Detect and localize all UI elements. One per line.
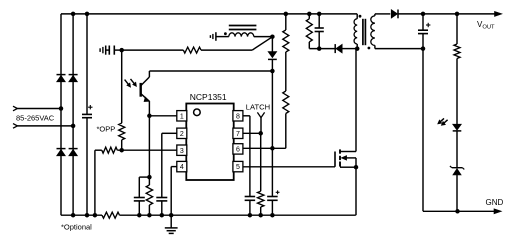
node bottom-B — [71, 213, 76, 218]
wire pin8 — [243, 115, 250, 117]
wire Q1 source to rail — [355, 167, 357, 215]
wire divider top lead — [456, 14, 458, 44]
diode D7 clamp — [334, 44, 336, 53]
led arrow 2 — [444, 120, 448, 123]
diode D4 — [69, 149, 78, 155]
node gnd junction — [455, 209, 460, 214]
wire emitter R to rail — [148, 205, 150, 215]
transistor opto base bar — [139, 83, 141, 97]
resistor sense Rs — [102, 212, 120, 218]
node bottom-C — [85, 213, 90, 218]
diode D2 — [69, 75, 78, 81]
svg-text:8: 8 — [236, 113, 240, 120]
wire D5 to vcc node — [271, 59, 273, 71]
svg-text:1: 1 — [180, 113, 184, 120]
opto light arrow 2 — [131, 79, 135, 84]
wire secondary top lead — [374, 14, 376, 16]
svg-text:6: 6 — [236, 147, 240, 154]
core transformer lines — [362, 19, 364, 45]
node vcc — [270, 69, 275, 74]
wire pin6 — [243, 147, 286, 149]
U1 pin 8 box — [233, 111, 243, 121]
U1 pin 2 box — [177, 128, 187, 138]
svg-text:5: 5 — [236, 164, 240, 171]
node CS-OPP junction — [119, 148, 124, 153]
capacitor pin1 filter — [134, 197, 145, 199]
node bottom emitter — [147, 213, 152, 218]
node bottom cap8 — [248, 213, 253, 218]
diode D5 vcc — [268, 52, 277, 58]
wire gnd rail — [458, 210, 499, 212]
wire output cap top lead — [422, 14, 424, 30]
node aux out — [270, 34, 275, 39]
node bridge A-AC1 — [59, 106, 64, 111]
wire latch vertical — [260, 118, 262, 134]
wire chain upper lead — [285, 14, 287, 30]
wire pin4 — [171, 166, 177, 168]
wire chain lower lead — [285, 114, 287, 149]
transistor Q1 gate bar — [334, 152, 336, 167]
capacitor pin8 — [245, 196, 256, 198]
resistor feedback — [454, 44, 460, 59]
Q1 body arrow — [341, 156, 346, 161]
wire divider to LED — [456, 59, 458, 125]
capacitor vcc — [267, 196, 278, 198]
terminal latch arrow — [257, 112, 264, 117]
node bottom cap2 — [160, 213, 165, 218]
resistor latch — [258, 191, 264, 207]
capacitor bulk — [82, 113, 92, 115]
capacitor output — [418, 29, 428, 31]
svg-text:*OPP: *OPP — [97, 125, 116, 134]
node output return — [421, 46, 426, 51]
transistor Q1 channel — [339, 149, 341, 153]
wire bulk cap leads — [86, 14, 88, 115]
wire clampC leads — [318, 14, 320, 28]
node vcc-pin6 — [270, 146, 275, 151]
resistor CS filter — [102, 147, 118, 153]
wire opto collector lead — [148, 71, 150, 77]
wire vcc cap to rail — [271, 200, 273, 215]
svg-text:GND: GND — [486, 198, 504, 207]
wire bottom rail left — [61, 214, 102, 216]
wire vcc vertical — [271, 71, 273, 197]
wire input line 1 — [17, 108, 61, 110]
ground pin4 — [170, 215, 172, 228]
wire bottom rail mid — [120, 214, 356, 216]
resistor startup lower — [283, 91, 289, 114]
wire clampR bottom lead — [308, 42, 310, 49]
node rail-B — [71, 12, 76, 17]
node Y-cap — [119, 48, 124, 53]
wire aux diagonal — [252, 37, 272, 50]
resistor *OPP — [119, 123, 125, 140]
wire OPP upper lead — [121, 50, 123, 123]
wire pin2 — [162, 132, 177, 134]
wire pin1 — [149, 115, 176, 117]
svg-text:NCP1351: NCP1351 — [190, 92, 227, 102]
wire Ycap to Raux — [122, 49, 184, 51]
wire vout rail — [398, 13, 499, 15]
node clampC bottom — [317, 46, 322, 51]
node aux phase dot — [224, 32, 227, 35]
wire cap8 to rail — [249, 200, 251, 215]
opto light arrow 1 — [125, 80, 129, 85]
wire clampR top lead — [308, 14, 310, 19]
U1 pin1 circle — [194, 109, 201, 116]
ground chassis Y — [99, 48, 101, 52]
ground chassis aux — [209, 35, 211, 38]
wire top bulk rail — [61, 13, 357, 15]
led arrow 1 — [440, 118, 444, 121]
node rail chain — [284, 12, 289, 17]
wire output cap bottom lead — [422, 34, 424, 49]
node Q1 source — [354, 165, 359, 170]
wire Q1 drain — [340, 151, 356, 153]
node primary bottom — [355, 46, 360, 51]
node secondary phase dot — [368, 47, 371, 50]
wire secondary bottom — [374, 45, 376, 48]
node bottom-D — [93, 213, 98, 218]
diode D9 zener — [452, 167, 463, 169]
capacitor Y — [106, 49, 110, 51]
svg-text:3: 3 — [180, 148, 184, 155]
wire chain mid — [285, 52, 287, 91]
svg-text:85-265VAC: 85-265VAC — [16, 113, 55, 122]
node bottom vcc — [270, 213, 275, 218]
svg-text:2: 2 — [180, 131, 184, 138]
wire opto collector diag — [141, 77, 150, 86]
node vout cap — [421, 12, 426, 17]
wire opto emitter diag — [141, 94, 150, 102]
wire LED to zener — [456, 131, 458, 169]
capacitor clamp — [315, 27, 324, 29]
wire cap1f to rail — [138, 201, 140, 215]
wire bridge column B — [72, 14, 74, 215]
U1 pin 6 box — [233, 144, 243, 154]
inductor aux winding — [229, 33, 254, 37]
resistor startup upper — [283, 30, 289, 52]
U1 pin 7 box — [233, 128, 243, 138]
wire primary top lead — [356, 14, 358, 19]
wire output return vertical — [422, 49, 424, 212]
wire CS to pin3 — [117, 149, 177, 151]
node pin4 rail — [169, 213, 174, 218]
wire Q1 source — [340, 166, 356, 168]
wire Raux to corner — [201, 49, 252, 51]
wire opto emitter vertical — [148, 101, 150, 185]
wire aux to node — [254, 36, 273, 38]
node rail-C — [85, 12, 90, 17]
wire D7 anode — [342, 48, 357, 50]
terminal gnd arrow — [494, 209, 502, 214]
wire OPP lower lead — [121, 140, 123, 150]
wire zener to gnd rail — [456, 175, 458, 211]
diode D3 — [57, 149, 66, 155]
wire clamp bottom bar — [309, 48, 335, 50]
node latch pin7 — [258, 131, 263, 136]
terminal vout arrow — [495, 11, 503, 16]
node pin1 junction — [147, 114, 152, 119]
wire vcc to opto — [149, 70, 272, 72]
diode D1 — [57, 75, 66, 81]
op-amp U1 NCP1351 body — [186, 104, 233, 181]
svg-text:*Optional: *Optional — [61, 223, 92, 232]
wire aux-diode lead — [271, 37, 273, 52]
U1 pin 3 box — [177, 145, 187, 155]
wire CS corner — [95, 149, 102, 151]
terminal AC neutral arrow — [13, 124, 17, 129]
wire RC branch — [139, 176, 149, 178]
wire cap2 to rail — [161, 201, 163, 215]
node primary phase dot — [359, 15, 362, 18]
diode D6 output — [391, 10, 397, 19]
U1 pin 4 box — [177, 161, 187, 171]
node vout divider — [455, 12, 460, 17]
node emitter RC junction — [147, 175, 152, 180]
resistor aux filter — [183, 47, 201, 53]
U1 pin 5 box — [233, 161, 243, 171]
transformer primary winding — [354, 19, 357, 44]
resistor clamp — [306, 19, 312, 42]
svg-text:4: 4 — [180, 164, 184, 171]
node rail clampR — [307, 12, 312, 17]
wire input line 2 — [17, 125, 73, 127]
diode D8 opto LED — [453, 124, 462, 130]
wire pin5 gate — [243, 166, 335, 168]
svg-text:LATCH: LATCH — [246, 103, 270, 112]
node bottom latch — [258, 213, 263, 218]
svg-text:7: 7 — [236, 131, 240, 138]
U1 pin 1 box — [177, 111, 187, 121]
core aux lines — [229, 25, 257, 27]
wire aux gnd to winding — [216, 36, 229, 38]
wire CS down lead — [94, 150, 96, 215]
node rail clampC — [317, 12, 322, 17]
resistor emitter — [146, 185, 152, 205]
node bridge B-AC2 — [71, 124, 76, 128]
wire pin7 — [243, 132, 261, 134]
node bottom capf — [137, 213, 142, 218]
wire bridge column A — [60, 14, 62, 215]
wire primary bottom lead — [356, 44, 358, 49]
terminal AC live arrow — [13, 106, 17, 111]
transformer secondary winding — [371, 16, 375, 46]
wire latch R to rail — [260, 207, 262, 215]
capacitor pin2 — [156, 197, 167, 199]
